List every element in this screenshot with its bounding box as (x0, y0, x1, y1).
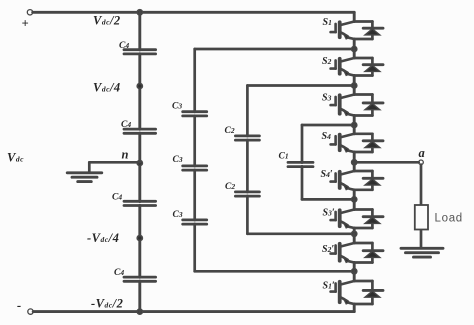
capacitor C4 (third, n to -Vdc/4) (112, 193, 156, 206)
svg-text:-Vdc/2: -Vdc/2 (91, 297, 123, 311)
node a (output terminal) (419, 146, 426, 165)
capacitor C2 (upper) (225, 126, 260, 140)
svg-text:C4: C4 (121, 120, 131, 130)
capacitor C1 (flying capacitor) (279, 152, 314, 167)
svg-text:C3: C3 (172, 102, 182, 112)
svg-text:Vdc/4: Vdc/4 (93, 81, 121, 95)
svg-text:-: - (17, 299, 22, 313)
diode D2' (antiparallel with S2') (354, 243, 383, 263)
svg-text:S1′: S1′ (323, 281, 335, 292)
ground at node n (67, 173, 102, 182)
terminal - (negative DC input) (17, 299, 33, 315)
switch S3' (IGBT) (323, 199, 355, 233)
wire C1 top (junction S3/S4 to C1) (302, 124, 354, 127)
capacitor C4 (bottom, -Vdc/4 to -Vdc/2) (114, 268, 156, 281)
ground below load (401, 248, 443, 257)
svg-text:Vdc/2: Vdc/2 (93, 14, 121, 28)
resistor Load (415, 205, 463, 230)
svg-text:C4: C4 (119, 41, 129, 51)
capacitor C3 (upper) (172, 102, 207, 116)
diode D1' (antiparallel with S1') (354, 281, 383, 304)
terminal + (positive DC input) (22, 10, 33, 31)
wire top bus (+ to S1 collector) (33, 11, 355, 14)
svg-text:C3: C3 (173, 210, 183, 220)
capacitor C2 (lower) (225, 182, 259, 196)
wire C1 bottom (C1 to junction S4'/S3') (302, 198, 354, 201)
svg-text:C2: C2 (225, 126, 235, 136)
wire output a (junction S4/S4' to load) (354, 161, 419, 164)
svg-text:S3′: S3′ (323, 208, 335, 219)
wire C3 top (junction S1/S2 to C3 column) (195, 48, 355, 51)
node -Vdc/4 (137, 235, 143, 241)
wire C3 bottom (C3 column to junction S2'/S1') (195, 270, 355, 273)
node junction S2'/S1' (351, 268, 357, 274)
svg-text:C2: C2 (225, 182, 235, 192)
node -Vdc/2 (bottom of DC bus) (137, 309, 143, 315)
wire C2 column vertical (246, 86, 249, 234)
svg-text:S1: S1 (323, 17, 332, 28)
switch S1 (IGBT) (323, 12, 355, 49)
diode D4' (antiparallel with S4') (354, 171, 383, 190)
diode D4 (antiparallel with S4) (354, 134, 383, 152)
diode D3 (antiparallel with S3) (354, 95, 383, 116)
wire bottom bus (- to S1' emitter) (33, 310, 354, 313)
svg-text:C3: C3 (173, 155, 183, 165)
node junction S2/S3 (351, 83, 357, 89)
node junction S1/S2 (351, 46, 357, 52)
svg-text:Load: Load (435, 213, 463, 225)
node Vdc/2 (top of DC bus) (137, 9, 143, 15)
node junction S3/S4 (351, 122, 357, 128)
diode D2 (antiparallel with S2) (354, 58, 383, 76)
capacitor C3 (middle) (173, 155, 207, 170)
svg-text:S4′: S4′ (321, 169, 333, 180)
switch S1' (IGBT) (323, 271, 355, 311)
node n (DC midpoint) (137, 160, 143, 166)
node junction S3'/S2' (351, 231, 357, 237)
svg-text:S2′: S2′ (322, 244, 334, 255)
wire C1 column vertical (301, 125, 304, 199)
switch S3 (IGBT) (322, 86, 354, 126)
diode D3' (antiparallel with S3') (354, 210, 383, 229)
svg-text:a: a (419, 146, 426, 160)
svg-text:Vdc: Vdc (7, 151, 24, 165)
svg-text:n: n (122, 148, 129, 162)
switch S2 (IGBT) (322, 49, 354, 86)
node junction S4/S4' (351, 159, 357, 165)
diode D1 (antiparallel with S1) (354, 22, 383, 40)
switch S4 (IGBT) (322, 125, 355, 162)
svg-text:+: + (22, 17, 30, 31)
wire C3 column vertical (193, 49, 196, 271)
wire load to ground (420, 231, 423, 248)
switch S4' (IGBT) (321, 162, 355, 199)
svg-text:C4: C4 (114, 268, 124, 278)
svg-text:S4: S4 (322, 131, 332, 142)
wire DC bus vertical (138, 12, 141, 311)
capacitor C4 (top, Vdc/2 to Vdc/4) (119, 41, 156, 54)
svg-text:C1: C1 (279, 152, 289, 162)
switch S2' (IGBT) (322, 234, 354, 271)
capacitor C3 (lower) (173, 210, 207, 224)
svg-text:S3: S3 (322, 93, 332, 104)
svg-text:-Vdc/4: -Vdc/4 (87, 231, 119, 245)
wire C2 top (junction S2/S3 to C2 column) (247, 84, 354, 87)
node Vdc/4 (137, 83, 143, 89)
node junction S4'/S3' (351, 197, 357, 203)
wire n to ground (89, 162, 140, 172)
svg-text:S2: S2 (322, 56, 332, 67)
capacitor C4 (second, Vdc/4 to n) (121, 120, 156, 133)
wire C2 bottom (C2 column to junction S3'/S2') (247, 232, 354, 235)
wire a to load (420, 165, 423, 204)
svg-text:C4: C4 (112, 193, 122, 203)
